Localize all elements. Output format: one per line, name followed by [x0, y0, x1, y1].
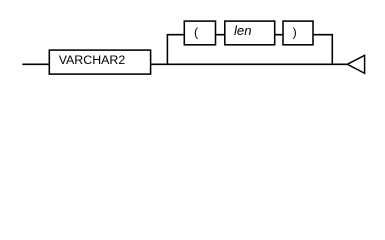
keyword box ( [184, 21, 215, 45]
variable box len [225, 21, 275, 45]
wire: optional-branch vertical up (left) [166, 34, 168, 64]
wire: main rail (entry to arrow tip) [22, 63, 347, 65]
svg-text:): ) [293, 26, 297, 40]
keyword box ) [283, 21, 313, 45]
svg-text:len: len [234, 23, 252, 38]
wire: optional-branch vertical down (right) [331, 34, 333, 64]
keyword box VARCHAR2 [49, 50, 150, 74]
terminal arrow: open left-pointing triangle [347, 55, 364, 73]
wire: optional-branch upper rail [167, 34, 333, 36]
svg-text:VARCHAR2: VARCHAR2 [59, 53, 126, 67]
